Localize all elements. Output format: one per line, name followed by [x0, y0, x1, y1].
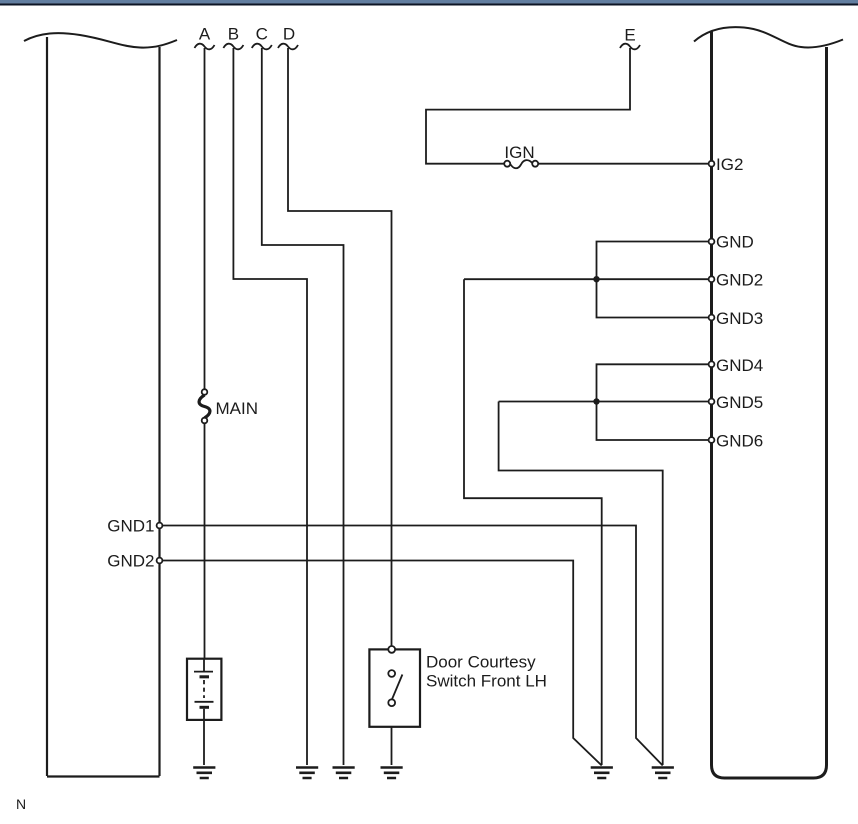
pin circle GND5 — [709, 399, 715, 405]
wire IGN fuse to IG2 pin — [538, 163, 708, 165]
door courtesy switch box — [369, 649, 420, 726]
wire C with break, bend to ground — [252, 44, 272, 50]
svg-text:Door Courtesy: Door Courtesy — [426, 653, 536, 672]
pin circle GND6 — [709, 437, 715, 443]
wire A vertical with break — [195, 44, 215, 50]
right bus wavy top break — [694, 27, 843, 47]
GND4/5/6 bracket — [499, 364, 712, 440]
wire B with break, bend to ground — [223, 44, 243, 50]
pin circle IG2 — [709, 161, 715, 167]
svg-text:GND2: GND2 — [107, 552, 154, 571]
ground symbol 1 (x=601) — [591, 768, 613, 779]
wire A below MAIN to battery — [204, 423, 206, 658]
GND1 wire from left bus to ground 2 — [161, 526, 663, 766]
ground symbol wire B — [296, 768, 318, 779]
pin circle GND2 left — [157, 558, 163, 564]
svg-text:N: N — [16, 796, 26, 812]
wire below switch to ground — [391, 727, 393, 765]
pin circle GND4 — [709, 361, 715, 367]
battery box — [187, 659, 221, 720]
svg-text:C: C — [256, 25, 268, 44]
svg-text:GND2: GND2 — [716, 270, 763, 289]
IGN fuse — [510, 160, 532, 168]
svg-text:GND4: GND4 — [716, 356, 763, 375]
junction dot GND5 — [593, 398, 599, 404]
GND bracket (GND,GND2,GND3) — [464, 242, 712, 318]
right bus connector body — [712, 31, 827, 778]
pin circle GND3 — [709, 315, 715, 321]
GND2 wire from left bus to ground 1 — [161, 561, 602, 766]
svg-text:GND3: GND3 — [716, 309, 763, 328]
left bus connector body — [47, 37, 160, 777]
pin circle GND — [709, 239, 715, 245]
top blue header bar — [0, 0, 858, 3]
battery symbol — [194, 659, 213, 678]
svg-text:B: B — [228, 25, 239, 44]
junction dot GND2 — [593, 276, 599, 282]
wire E with break — [620, 44, 640, 50]
svg-text:GND5: GND5 — [716, 393, 763, 412]
GND2 branch down to ground 1 — [464, 279, 602, 765]
ground symbol battery — [193, 768, 215, 779]
svg-text:Switch Front LH: Switch Front LH — [426, 672, 547, 691]
svg-text:E: E — [624, 26, 635, 45]
wire D with break, bend to door switch — [278, 44, 298, 50]
svg-text:D: D — [283, 25, 295, 44]
left bus wavy top break — [24, 33, 177, 47]
svg-text:A: A — [199, 25, 211, 44]
svg-text:GND1: GND1 — [107, 517, 154, 536]
svg-text:MAIN: MAIN — [216, 399, 259, 418]
svg-text:GND: GND — [716, 233, 754, 252]
switch blade — [392, 675, 403, 701]
svg-text:IG2: IG2 — [716, 155, 743, 174]
svg-text:IGN: IGN — [504, 143, 534, 162]
switch pins — [388, 646, 395, 653]
pin circle GND1 left — [157, 523, 163, 529]
MAIN fusible link — [199, 395, 210, 418]
ground symbol wire C — [333, 768, 355, 779]
ground symbol door switch — [381, 768, 403, 779]
ground symbol 2 (x=662) — [652, 768, 674, 779]
pin circle GND2 — [709, 276, 715, 282]
GND5 branch down to ground 2 — [499, 402, 663, 766]
svg-text:GND6: GND6 — [716, 432, 763, 451]
